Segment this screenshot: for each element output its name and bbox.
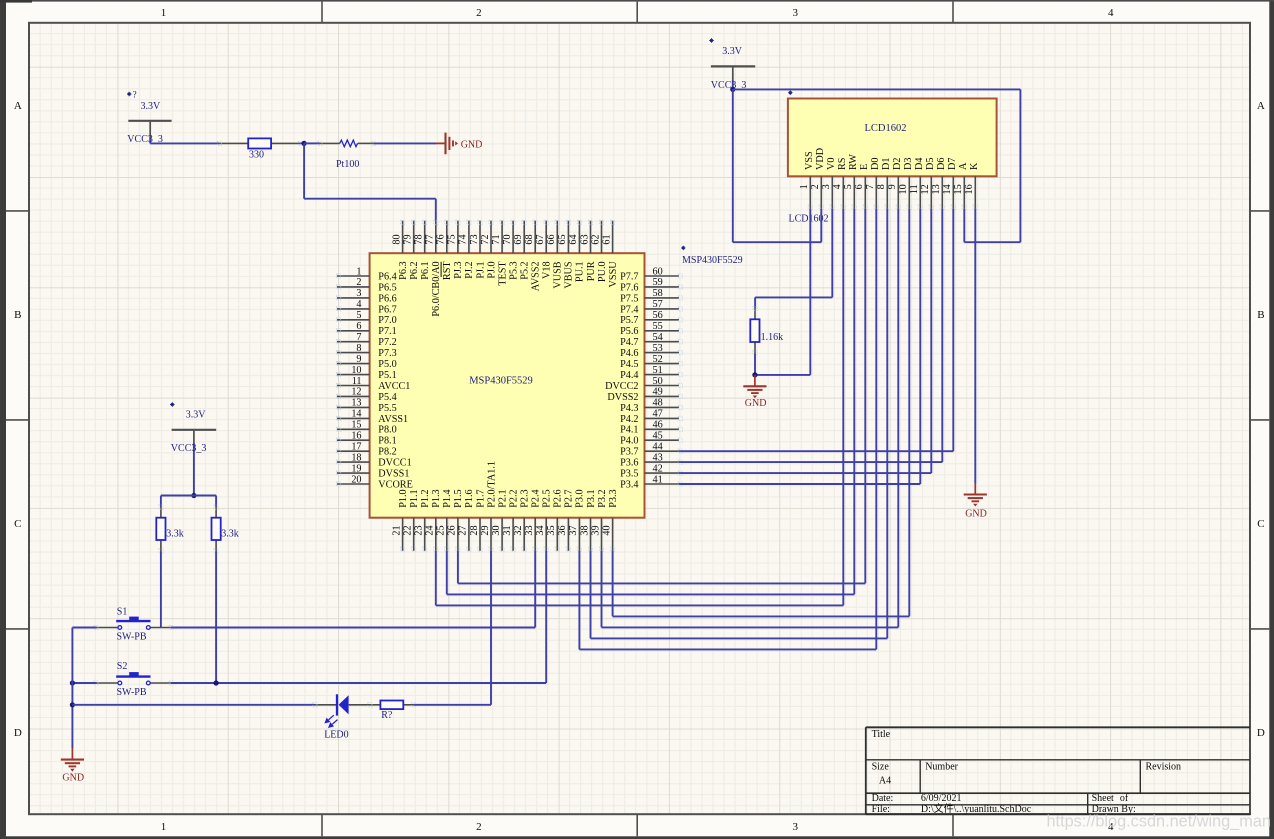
svg-text:3: 3 — [793, 7, 799, 19]
resistor R3 3.3k (left) — [156, 496, 184, 554]
svg-text:41: 41 — [653, 474, 663, 485]
svg-text:2: 2 — [476, 7, 482, 19]
junction node Pt100/R1 — [302, 141, 307, 146]
svg-text:DVCC1: DVCC1 — [378, 458, 411, 469]
svg-text:5: 5 — [843, 184, 854, 189]
svg-text:69: 69 — [513, 234, 524, 244]
svg-text:S2: S2 — [117, 661, 128, 672]
wire junction to Pt100 — [304, 142, 320, 144]
svg-text:P8.1: P8.1 — [378, 436, 396, 447]
svg-text:P3.5: P3.5 — [620, 469, 638, 480]
svg-text:61: 61 — [601, 234, 612, 244]
svg-text:P6.1: P6.1 — [420, 261, 431, 279]
svg-text:12: 12 — [920, 184, 931, 194]
svg-text:26: 26 — [447, 525, 458, 535]
svg-text:PUR: PUR — [586, 261, 597, 281]
svg-text:20: 20 — [351, 474, 361, 485]
svg-text:P5.4: P5.4 — [378, 392, 396, 403]
svg-text:62: 62 — [590, 234, 601, 244]
resistor R1 330 — [217, 138, 302, 160]
svg-text:P2.7: P2.7 — [564, 489, 575, 507]
svg-text:P4.6: P4.6 — [620, 348, 638, 359]
svg-text:AVCC1: AVCC1 — [378, 381, 410, 392]
svg-text:13: 13 — [351, 398, 361, 409]
svg-text:P7.2: P7.2 — [378, 337, 396, 348]
wire VCC3_3 to LCD pin 2 VDD — [733, 89, 822, 242]
svg-text:58: 58 — [653, 288, 663, 299]
svg-text:PJ.1: PJ.1 — [475, 261, 486, 278]
svg-text:DVCC2: DVCC2 — [605, 381, 638, 392]
svg-text:PU.1: PU.1 — [575, 261, 586, 282]
svg-text:P4.7: P4.7 — [620, 337, 638, 348]
svg-text:45: 45 — [653, 431, 663, 442]
svg-text:MSP430F5529: MSP430F5529 — [682, 255, 743, 266]
svg-text:A: A — [958, 162, 969, 170]
wire junction to MCU pin 77 (P6.0/CB0/A0) — [304, 143, 436, 220]
MCU U1 MSP430F5529 body — [370, 253, 645, 518]
svg-text:3.3k: 3.3k — [221, 529, 239, 540]
svg-text:D0: D0 — [870, 158, 881, 170]
svg-text:P6.2: P6.2 — [409, 261, 420, 279]
svg-text:DVSS2: DVSS2 — [607, 392, 638, 403]
svg-text:RS: RS — [837, 157, 848, 170]
power ground GND (below LCD K) — [964, 484, 987, 520]
svg-text:VUSB: VUSB — [553, 261, 564, 288]
svg-text:2: 2 — [356, 277, 361, 288]
U1 left pin names — [378, 271, 413, 490]
svg-text:P3.7: P3.7 — [620, 447, 638, 458]
svg-text:36: 36 — [557, 525, 568, 535]
junction node VCC3_3 pullups — [191, 493, 196, 498]
svg-text:K: K — [969, 162, 980, 170]
svg-text:MSP430F5529: MSP430F5529 — [469, 376, 533, 387]
svg-text:10: 10 — [898, 184, 909, 194]
svg-text:1.16k: 1.16k — [761, 332, 784, 343]
wire LCD16 K to GND — [974, 209, 976, 484]
svg-text:Title: Title — [872, 729, 891, 740]
svg-text:P1.3: P1.3 — [431, 489, 442, 507]
U1 right pin stubs 60-41 — [645, 274, 683, 486]
svg-text:D: D — [1257, 727, 1265, 739]
wire S2 to U1 pin34 P2.5 — [171, 551, 547, 683]
svg-text:D1: D1 — [881, 158, 892, 170]
wire R1 to junction — [300, 142, 304, 144]
svg-text:P1.4: P1.4 — [442, 489, 453, 507]
svg-text:P6.4: P6.4 — [378, 271, 396, 282]
svg-text:60: 60 — [653, 266, 663, 277]
wire S1 to U1 pin33 P2.4 — [171, 551, 536, 628]
svg-text:P3.4: P3.4 — [620, 479, 638, 490]
wire LCD7 D0 to U1 pin37 P3.0 — [579, 209, 876, 650]
svg-text:51: 51 — [653, 365, 663, 376]
svg-text:Sheet: Sheet — [1092, 793, 1114, 804]
svg-text:66: 66 — [546, 234, 557, 244]
svg-text:28: 28 — [469, 525, 480, 535]
wire LCD11 D4 to U1 pin41 P3.4 — [679, 209, 920, 484]
svg-text:P3.6: P3.6 — [620, 458, 638, 469]
svg-text:https://blog.csdn.net/wing_man: https://blog.csdn.net/wing_man — [1047, 813, 1271, 831]
svg-text:9: 9 — [356, 354, 361, 365]
power ground GND (below R2) — [743, 375, 766, 409]
svg-text:P5.3: P5.3 — [508, 261, 519, 279]
svg-text:AVSS1: AVSS1 — [378, 414, 408, 425]
wire LCD9 D2 to U1 pin39 P3.2 — [602, 209, 899, 628]
svg-text:25: 25 — [436, 525, 447, 535]
svg-text:56: 56 — [653, 310, 663, 321]
wire VCC3_3 to LCD pin 15 A — [733, 89, 1021, 242]
svg-text:P2.5: P2.5 — [542, 489, 553, 507]
svg-text:2: 2 — [476, 821, 482, 833]
svg-text:VBUS: VBUS — [564, 261, 575, 289]
svg-text:P3.2: P3.2 — [597, 489, 608, 507]
svg-text:6/09/2021: 6/09/2021 — [921, 793, 962, 804]
svg-text:330: 330 — [249, 149, 264, 160]
svg-text:D6: D6 — [936, 158, 947, 170]
junction node rail/LED wire — [70, 702, 75, 707]
svg-text:40: 40 — [601, 525, 612, 535]
svg-text:R?: R? — [381, 710, 393, 721]
U1 left pin numbers 1-20 — [351, 266, 361, 485]
wire pullup rail — [161, 495, 216, 497]
svg-text:P2.3: P2.3 — [520, 489, 531, 507]
svg-text:21: 21 — [391, 525, 402, 535]
svg-text:63: 63 — [579, 234, 590, 244]
svg-text:S1: S1 — [117, 607, 128, 618]
svg-text:P2.2: P2.2 — [508, 489, 519, 507]
svg-text:14: 14 — [351, 409, 361, 420]
svg-text:65: 65 — [557, 234, 568, 244]
wire R4 to S2 line — [215, 552, 217, 684]
svg-text:P2.6: P2.6 — [553, 489, 564, 507]
svg-text:P4.4: P4.4 — [620, 370, 638, 381]
svg-text:D2: D2 — [892, 158, 903, 170]
svg-text:V0: V0 — [826, 158, 837, 170]
svg-text:5: 5 — [356, 310, 361, 321]
svg-text:?: ? — [133, 90, 137, 100]
svg-text:33: 33 — [524, 525, 535, 535]
svg-text:59: 59 — [653, 277, 663, 288]
svg-text:P5.5: P5.5 — [378, 403, 396, 414]
svg-text:17: 17 — [351, 442, 361, 453]
wire left rail to S1 — [72, 627, 96, 629]
svg-text:47: 47 — [653, 409, 663, 420]
svg-text:P4.3: P4.3 — [620, 403, 638, 414]
svg-text:P5.6: P5.6 — [620, 326, 638, 337]
U1 top pin stubs 80-61 — [401, 220, 615, 253]
svg-text:68: 68 — [524, 234, 535, 244]
svg-text:64: 64 — [568, 234, 579, 244]
svg-text:7: 7 — [356, 332, 361, 343]
svg-text:TEST: TEST — [497, 261, 508, 286]
svg-text:P7.6: P7.6 — [620, 282, 638, 293]
junction node VCC3_3 LCD — [730, 87, 735, 92]
svg-text:GND: GND — [62, 773, 84, 784]
U1 top pin numbers 80-61 — [391, 234, 612, 244]
svg-text:76: 76 — [436, 234, 447, 244]
svg-text:D3: D3 — [903, 158, 914, 170]
U1 comment label MSP430F5529 — [681, 246, 742, 267]
power port 3.3V VCC3_3 (top-left) — [127, 90, 172, 145]
svg-text:A: A — [14, 100, 22, 112]
svg-text:P3.3: P3.3 — [608, 489, 619, 507]
LCD1602 pin stubs 1-16 — [808, 176, 977, 209]
svg-text:48: 48 — [653, 398, 663, 409]
svg-text:P1.5: P1.5 — [453, 489, 464, 507]
svg-text:46: 46 — [653, 420, 663, 431]
wire rail to LED0 — [72, 704, 314, 706]
wire LCD pin 1 VSS to GND — [755, 209, 810, 375]
LCD1602 designator label — [788, 91, 828, 225]
wire VCC3_3 to R1 330 — [150, 142, 219, 144]
svg-text:12: 12 — [351, 387, 361, 398]
svg-text:44: 44 — [653, 442, 663, 453]
wire LCD6 E to U1 pin26 P1.5 — [458, 209, 865, 584]
wire left ground rail — [71, 628, 73, 749]
svg-text:C: C — [1257, 518, 1264, 530]
svg-text:D:\文件\..\yuanlitu.SchDoc: D:\文件\..\yuanlitu.SchDoc — [921, 802, 1032, 815]
svg-text:RST: RST — [442, 261, 453, 280]
svg-text:3.3V: 3.3V — [141, 101, 162, 112]
svg-text:29: 29 — [480, 525, 491, 535]
svg-text:P5.0: P5.0 — [378, 359, 396, 370]
svg-text:D4: D4 — [914, 158, 925, 170]
svg-text:80: 80 — [391, 234, 402, 244]
svg-text:B: B — [1257, 309, 1264, 321]
svg-text:File:: File: — [872, 804, 890, 815]
junction node R4/S2 — [214, 680, 219, 685]
svg-text:P1.2: P1.2 — [420, 489, 431, 507]
svg-text:1: 1 — [161, 7, 167, 19]
svg-text:D7: D7 — [947, 158, 958, 170]
svg-text:73: 73 — [469, 234, 480, 244]
svg-text:P4.1: P4.1 — [620, 425, 638, 436]
svg-text:38: 38 — [579, 525, 590, 535]
svg-text:P6.6: P6.6 — [378, 293, 396, 304]
svg-text:8: 8 — [876, 184, 887, 189]
svg-text:P4.5: P4.5 — [620, 359, 638, 370]
power port 3.3V VCC3_3 (LCD) — [709, 38, 755, 91]
svg-text:35: 35 — [546, 525, 557, 535]
svg-text:A4: A4 — [879, 776, 891, 787]
LED LED0 — [313, 694, 349, 740]
svg-text:PJ.0: PJ.0 — [486, 261, 497, 278]
U1 bottom pin numbers 21-40 — [391, 525, 612, 535]
svg-text:13: 13 — [931, 184, 942, 194]
wire LCD5 RW to U1 pin25 P1.4 — [447, 209, 855, 595]
svg-text:6: 6 — [356, 321, 361, 332]
svg-text:4: 4 — [356, 299, 361, 310]
svg-text:P8.0: P8.0 — [378, 425, 396, 436]
wire LCD8 D1 to U1 pin38 P3.1 — [591, 209, 888, 639]
svg-text:P5.7: P5.7 — [620, 315, 638, 326]
svg-text:15: 15 — [953, 184, 964, 194]
svg-text:P6.3: P6.3 — [398, 261, 409, 279]
svg-text:43: 43 — [653, 452, 663, 463]
svg-text:6: 6 — [854, 184, 865, 189]
svg-text:P7.7: P7.7 — [620, 271, 638, 282]
svg-text:9: 9 — [887, 184, 898, 189]
LCD1602 pin names — [804, 148, 980, 170]
svg-text:70: 70 — [502, 234, 513, 244]
wire LCD4 RS to U1 pin24 P1.3 — [436, 209, 844, 606]
svg-text:67: 67 — [535, 234, 546, 244]
svg-text:34: 34 — [535, 525, 546, 535]
svg-text:54: 54 — [653, 332, 663, 343]
wire LCD12 D5 to U1 pin42 P3.5 — [679, 209, 931, 473]
svg-text:31: 31 — [502, 525, 513, 535]
wire left rail to S2 — [72, 682, 96, 684]
resistor R4 3.3k (right) — [212, 496, 239, 554]
svg-text:LCD1602: LCD1602 — [789, 213, 829, 224]
svg-text:30: 30 — [491, 525, 502, 535]
svg-text:3: 3 — [793, 821, 799, 833]
svg-text:3: 3 — [356, 288, 361, 299]
title block — [866, 727, 1250, 815]
svg-text:P4.0: P4.0 — [620, 436, 638, 447]
svg-text:E: E — [859, 164, 870, 170]
svg-text:3: 3 — [821, 184, 832, 189]
svg-text:79: 79 — [403, 234, 414, 244]
svg-text:49: 49 — [653, 387, 663, 398]
svg-text:78: 78 — [414, 234, 425, 244]
svg-text:P7.5: P7.5 — [620, 293, 638, 304]
svg-text:32: 32 — [513, 525, 524, 535]
junction node VSS/R2/GND — [752, 372, 757, 377]
svg-text:Number: Number — [925, 762, 958, 773]
svg-text:of: of — [1120, 793, 1129, 804]
svg-text:RW: RW — [848, 154, 859, 170]
svg-text:LCD1602: LCD1602 — [865, 123, 907, 134]
U1 left pin stubs 1-20 — [337, 274, 370, 486]
svg-text:SW-PB: SW-PB — [117, 632, 147, 643]
U1 bottom pin stubs 21-40 — [401, 518, 615, 552]
svg-text:P4.2: P4.2 — [620, 414, 638, 425]
svg-text:P8.2: P8.2 — [378, 447, 396, 458]
svg-text:39: 39 — [590, 525, 601, 535]
svg-text:1: 1 — [799, 184, 810, 189]
svg-text:72: 72 — [480, 234, 491, 244]
svg-text:GND: GND — [745, 398, 767, 409]
svg-text:PJ.2: PJ.2 — [464, 261, 475, 278]
svg-text:VSSU: VSSU — [608, 261, 619, 288]
svg-text:P2.1: P2.1 — [497, 489, 508, 507]
U1 right pin names — [605, 271, 638, 490]
svg-text:Size: Size — [872, 762, 890, 773]
svg-text:P3.1: P3.1 — [586, 489, 597, 507]
resistor R2 1.16k — [750, 306, 783, 354]
svg-text:P7.4: P7.4 — [620, 304, 638, 315]
svg-text:3.3V: 3.3V — [186, 409, 207, 420]
svg-text:19: 19 — [351, 463, 361, 474]
svg-text:VSS: VSS — [804, 151, 815, 170]
svg-text:C: C — [14, 518, 21, 530]
svg-text:57: 57 — [653, 299, 663, 310]
svg-text:SW-PB: SW-PB — [117, 687, 147, 698]
wire LCD10 D3 to U1 pin40 P3.3 — [613, 209, 910, 617]
U1 top pin names — [398, 261, 619, 317]
wire R3 to S1 line — [160, 552, 162, 628]
LCD module LCD1602 body — [788, 99, 997, 177]
svg-text:23: 23 — [414, 525, 425, 535]
svg-text:1: 1 — [161, 821, 167, 833]
svg-text:4: 4 — [832, 184, 843, 189]
svg-text:PJ.3: PJ.3 — [453, 261, 464, 278]
svg-text:P2.4: P2.4 — [531, 489, 542, 507]
svg-text:3.3V: 3.3V — [722, 46, 743, 57]
svg-text:1: 1 — [356, 266, 361, 277]
svg-text:PU.0: PU.0 — [597, 261, 608, 282]
power ground GND (top, rotated) — [436, 133, 482, 155]
junction node rail/S2 — [70, 680, 75, 685]
svg-text:P7.1: P7.1 — [378, 326, 396, 337]
power port 3.3V VCC3_3 (bottom-left) — [170, 402, 216, 495]
svg-text:P5.2: P5.2 — [520, 261, 531, 279]
svg-text:53: 53 — [653, 343, 663, 354]
U1 right pin numbers 60-41 — [653, 266, 663, 485]
svg-text:11: 11 — [352, 376, 362, 387]
svg-text:75: 75 — [447, 234, 458, 244]
svg-text:LED0: LED0 — [324, 730, 348, 741]
svg-text:P6.7: P6.7 — [378, 304, 396, 315]
svg-text:Revision: Revision — [1146, 762, 1182, 773]
svg-text:50: 50 — [653, 376, 663, 387]
svg-text:Pt100: Pt100 — [336, 159, 359, 170]
svg-text:GND: GND — [965, 509, 987, 520]
svg-text:55: 55 — [653, 321, 663, 332]
svg-text:7: 7 — [865, 184, 876, 189]
thermistor Pt100 — [318, 140, 376, 170]
svg-text:D5: D5 — [925, 158, 936, 170]
svg-text:14: 14 — [942, 184, 953, 194]
svg-text:P1.7: P1.7 — [475, 489, 486, 507]
svg-text:P3.0: P3.0 — [575, 489, 586, 507]
svg-text:VCORE: VCORE — [378, 479, 413, 490]
svg-text:P6.5: P6.5 — [378, 282, 396, 293]
svg-text:4: 4 — [1108, 7, 1114, 19]
svg-text:24: 24 — [425, 525, 436, 535]
LCD1602 pin numbers 1-16 — [799, 184, 975, 194]
svg-text:P6.0/CB0/A0: P6.0/CB0/A0 — [431, 261, 442, 316]
svg-text:37: 37 — [568, 525, 579, 535]
svg-text:10: 10 — [351, 365, 361, 376]
power ground GND (bottom-left) — [61, 748, 84, 784]
svg-text:P5.1: P5.1 — [378, 370, 396, 381]
wire LCD13 D6 to U1 pin43 P3.6 — [679, 209, 942, 462]
svg-text:P7.3: P7.3 — [378, 348, 396, 359]
svg-text:P1.1: P1.1 — [409, 489, 420, 507]
svg-text:15: 15 — [351, 420, 361, 431]
switch S2 SW-PB — [94, 661, 174, 698]
svg-text:11: 11 — [909, 184, 920, 194]
svg-text:AVSS2: AVSS2 — [531, 261, 542, 291]
svg-text:16: 16 — [964, 184, 975, 194]
svg-text:B: B — [14, 309, 21, 321]
svg-text:D: D — [14, 727, 22, 739]
wire LCD pin 3 V0 to R2 — [755, 209, 832, 308]
svg-text:42: 42 — [653, 463, 663, 474]
svg-text:P1.6: P1.6 — [464, 489, 475, 507]
svg-text:DVSS1: DVSS1 — [378, 469, 409, 480]
svg-text:VCC3_3: VCC3_3 — [171, 443, 207, 454]
svg-text:P2.0/TA1.1: P2.0/TA1.1 — [486, 461, 497, 508]
wire R2 to GND — [754, 353, 756, 375]
svg-text:A: A — [1257, 100, 1265, 112]
U1 bottom pin names — [398, 461, 619, 508]
svg-text:V18: V18 — [542, 261, 553, 279]
switch S1 SW-PB — [94, 607, 174, 643]
svg-text:16: 16 — [351, 431, 361, 442]
svg-text:71: 71 — [491, 234, 502, 244]
